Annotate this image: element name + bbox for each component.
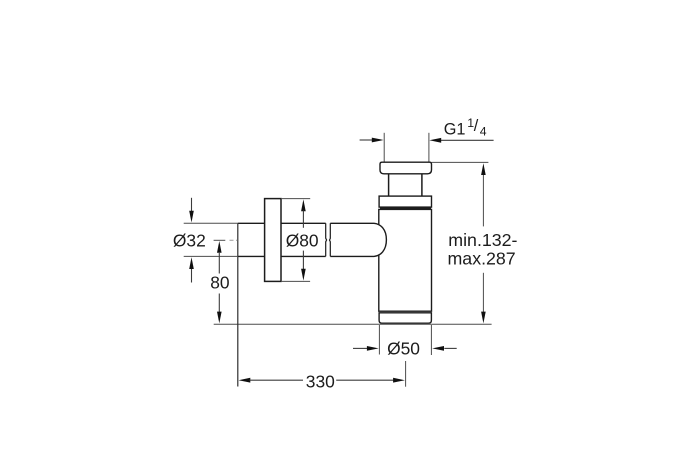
wire: pipe top edge (flange to break) [281,222,326,224]
arrowhead: G1 1/4 right (points left) [429,138,441,143]
wire: G1 1/4 dimension tail right [441,139,494,141]
svg-text:Ø80: Ø80 [286,231,319,251]
arrowhead: 80 bottom (points down) [217,312,222,324]
wire: O80 bottom extension line [281,280,310,282]
wire: O32 upper arrow tail [191,198,193,212]
wire: pipe break line left [325,223,328,256]
wire: 330 centre extension line [405,361,407,387]
wire: min/max dimension line lower segment [482,273,484,313]
wire: O50 dimension tail right [444,347,456,349]
svg-text:max.287: max.287 [448,249,516,269]
wire: min/max dimension line upper segment [482,174,484,226]
wire: G1 1/4 extension line right [428,133,430,162]
arrowhead: O32 upper (points down) [189,211,194,223]
wire: pipe top edge (wall to flange) [238,222,265,224]
wire: O50 extension line left [378,325,380,355]
wire: extension line from top cap to min/max dimension [432,161,489,163]
svg-text:min.132-: min.132- [448,230,517,250]
svg-text:4: 4 [480,124,487,138]
arrowhead: 330 right (points right) [393,378,405,383]
wire: pipe break line right [329,223,332,256]
svg-text:Ø50: Ø50 [387,339,420,359]
wire: O80 dimension line lower segment [302,251,304,271]
wire: G1 1/4 dimension tail left [360,139,373,141]
wire: neck left edge [388,174,390,196]
wire: 80 dimension line lower segment [218,294,220,313]
top cap (slip nut flange) of vertical inlet [380,162,432,174]
wire: O32 bottom extension line [184,255,238,257]
wire: bottom reference baseline [214,323,492,325]
arrowhead: O80 top (points up) [301,199,306,211]
wire: O80 top extension line [281,198,310,200]
svg-text:330: 330 [306,371,335,391]
wall flange (rosette disc, side view) [265,199,281,282]
nut of trap body [379,196,431,207]
arrowhead: G1 1/4 left (points right) [372,138,384,143]
arrowhead: 80 top (points up) [217,241,222,253]
wire: 80 centreline dashes toward pipe [230,239,238,241]
wire: G1 1/4 extension line left [383,133,385,162]
wire: nut/body separation dark band [380,207,431,209]
wire: O32 top extension line [184,222,238,224]
arrowhead: min/max bottom (points down) [481,312,486,324]
trap body (cup) [379,209,432,311]
wire: O50 extension line right [430,325,432,355]
wire: 80 dimension line upper segment [218,252,220,274]
wire: 330 left extension / wall line [237,223,239,386]
wire: 330 dimension line right segment [336,379,394,381]
arrowhead: 330 left (points left) [239,378,251,383]
wire: 330 dimension line left segment [250,379,304,381]
svg-text:80: 80 [210,273,229,293]
wire: pipe bottom edge (wall to flange) [238,255,265,257]
svg-text:/: / [474,117,479,135]
wire: O32 lower arrow tail [191,268,193,283]
bottom cap of trap body [379,313,431,323]
arrowhead: min/max top (points up) [481,163,486,175]
wire: 80 dimension top tick at pipe centreline [214,239,226,241]
label G1 1/4 [444,116,487,139]
wire: neck right edge [421,174,423,196]
arrowhead: O50 right (points left) [432,346,444,351]
wire: O80 dimension line upper segment [302,210,304,227]
horizontal inlet pipe: dome end merging into body [330,223,386,256]
svg-text:G1: G1 [444,121,466,139]
arrowhead: O32 lower (points up) [189,257,194,269]
wire: pipe bottom edge (flange to break) [281,255,326,257]
arrowhead: O50 left (points right) [367,346,379,351]
wire: O50 dimension tail left [353,347,367,349]
svg-text:Ø32: Ø32 [173,230,206,250]
arrowhead: O80 bottom (points down) [301,269,306,281]
